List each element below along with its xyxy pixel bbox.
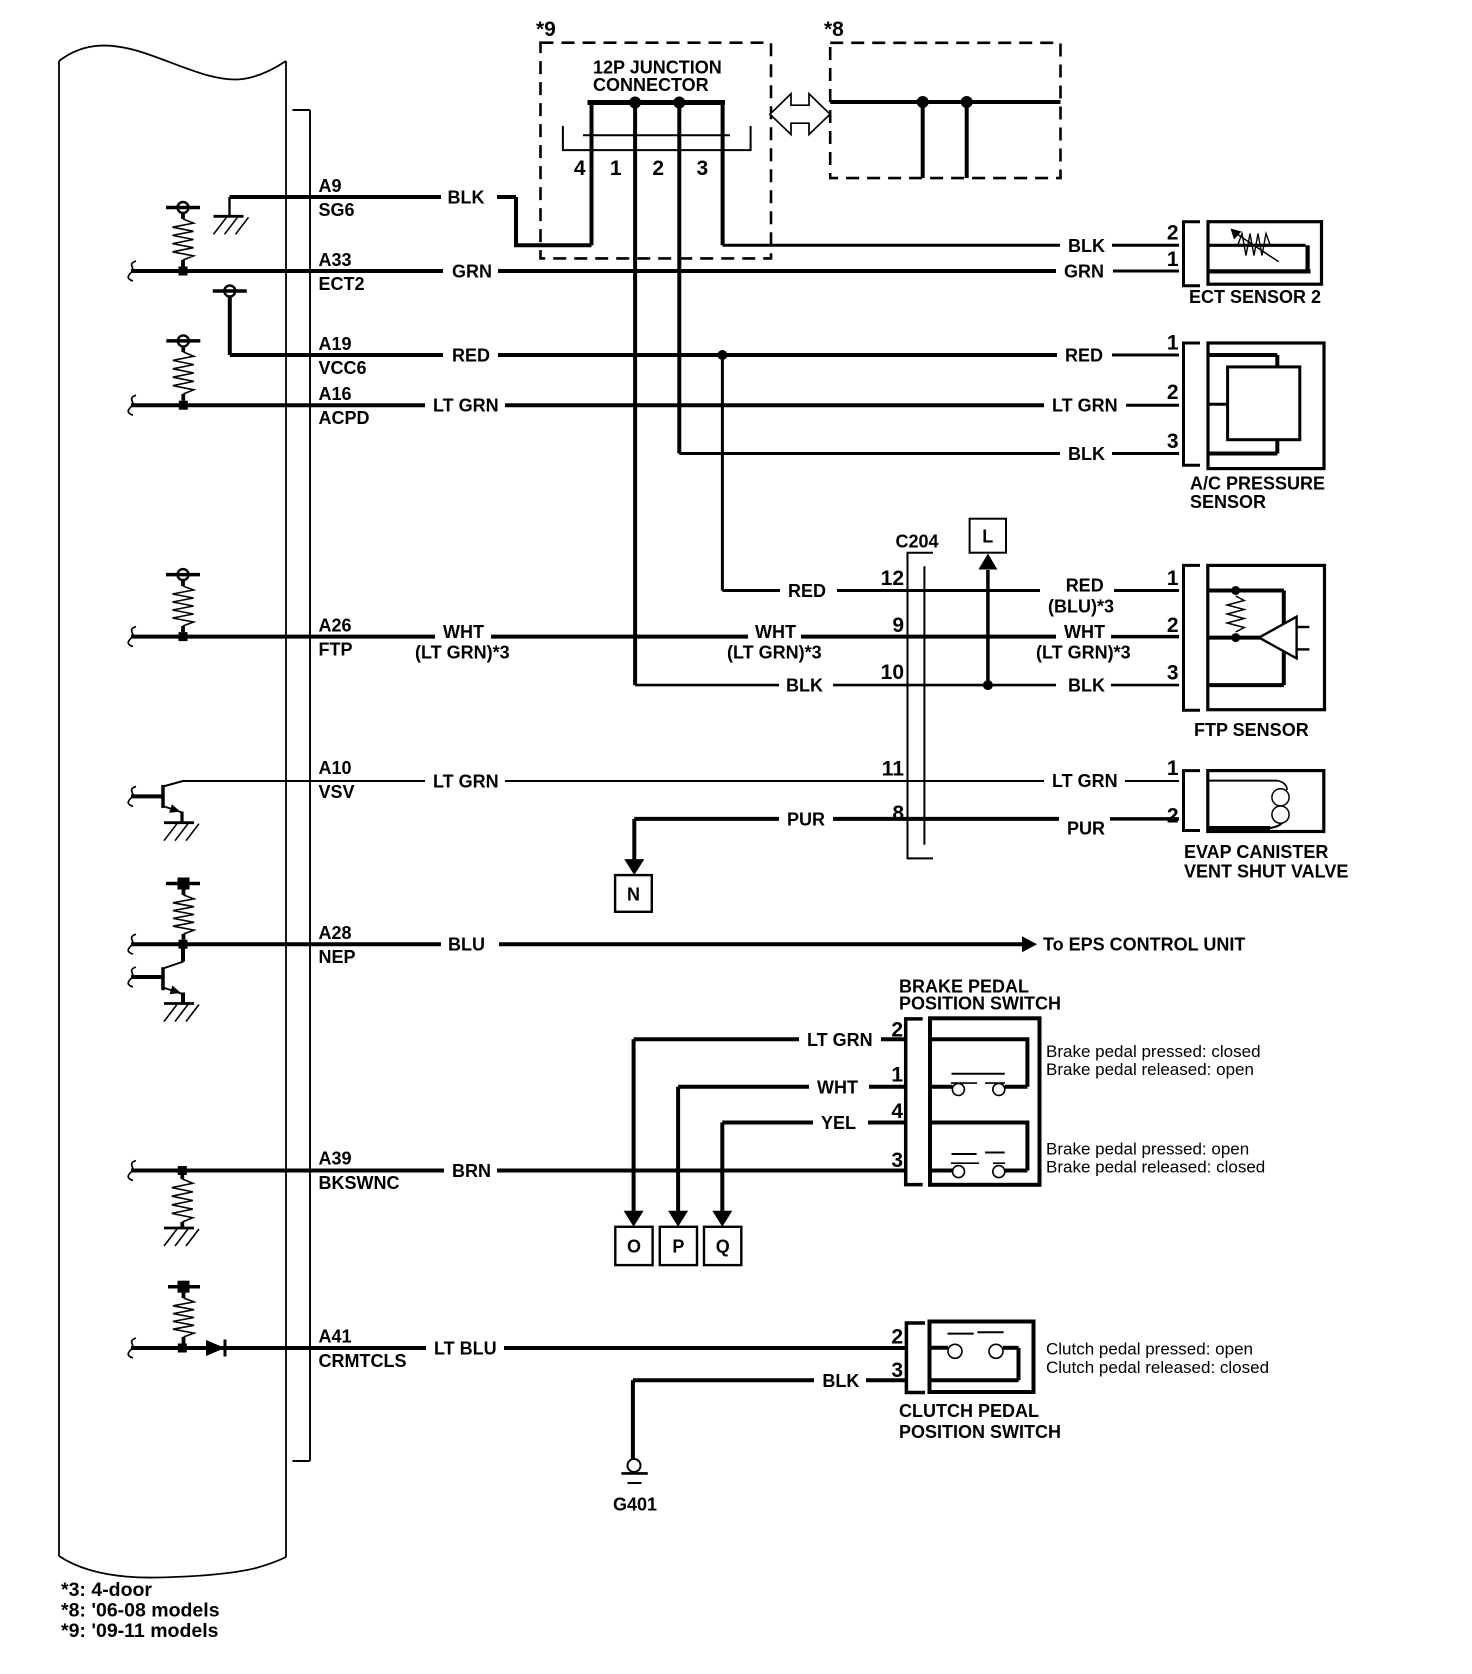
- svg-text:CLUTCH PEDAL: CLUTCH PEDAL: [899, 1401, 1039, 1421]
- svg-text:BLK: BLK: [1068, 676, 1105, 696]
- svg-text:4: 4: [891, 1100, 903, 1123]
- svg-text:SENSOR: SENSOR: [1190, 492, 1266, 512]
- svg-text:RED: RED: [788, 581, 826, 601]
- svg-text:WHT: WHT: [755, 622, 796, 642]
- svg-text:RED: RED: [1066, 576, 1104, 596]
- svg-text:SG6: SG6: [319, 200, 355, 220]
- svg-text:N: N: [627, 885, 640, 905]
- svg-text:BLK: BLK: [786, 676, 823, 696]
- svg-text:2: 2: [652, 157, 664, 180]
- svg-text:C204: C204: [896, 532, 939, 552]
- svg-text:1: 1: [891, 1064, 903, 1087]
- svg-text:To EPS CONTROL UNIT: To EPS CONTROL UNIT: [1043, 935, 1245, 955]
- svg-text:WHT: WHT: [443, 622, 484, 642]
- svg-text:A/C PRESSURE: A/C PRESSURE: [1190, 474, 1325, 494]
- svg-text:Brake pedal released: open: Brake pedal released: open: [1046, 1060, 1254, 1079]
- svg-text:RED: RED: [452, 346, 490, 366]
- svg-text:VENT SHUT VALVE: VENT SHUT VALVE: [1184, 862, 1348, 882]
- svg-text:A28: A28: [319, 923, 352, 943]
- svg-text:A26: A26: [319, 616, 352, 636]
- svg-text:NEP: NEP: [319, 947, 356, 967]
- svg-text:A19: A19: [319, 334, 352, 354]
- svg-text:PUR: PUR: [787, 809, 825, 829]
- svg-text:GRN: GRN: [452, 262, 492, 282]
- svg-text:YEL: YEL: [821, 1113, 856, 1133]
- svg-text:10: 10: [881, 661, 904, 684]
- svg-text:2: 2: [1167, 614, 1179, 637]
- svg-text:A41: A41: [319, 1327, 352, 1347]
- svg-text:12: 12: [881, 567, 904, 590]
- svg-text:LT GRN: LT GRN: [433, 772, 499, 792]
- svg-text:2: 2: [891, 1019, 903, 1042]
- svg-text:LT BLU: LT BLU: [434, 1339, 497, 1359]
- svg-text:LT GRN: LT GRN: [807, 1030, 873, 1050]
- svg-text:ECT2: ECT2: [319, 274, 365, 294]
- svg-text:FTP: FTP: [319, 640, 353, 660]
- svg-text:BKSWNC: BKSWNC: [319, 1173, 400, 1193]
- svg-text:(BLU)*3: (BLU)*3: [1048, 597, 1114, 617]
- svg-text:8: 8: [892, 802, 904, 825]
- svg-text:Brake pedal released: closed: Brake pedal released: closed: [1046, 1158, 1265, 1177]
- svg-text:LT GRN: LT GRN: [1052, 396, 1118, 416]
- svg-text:A10: A10: [319, 758, 352, 778]
- svg-text:*9: *9: [536, 18, 556, 41]
- svg-text:G401: G401: [613, 1495, 657, 1515]
- svg-text:1: 1: [1167, 248, 1179, 271]
- svg-text:1: 1: [610, 157, 622, 180]
- svg-text:2: 2: [1167, 805, 1179, 828]
- svg-text:FTP SENSOR: FTP SENSOR: [1194, 720, 1309, 740]
- svg-text:4: 4: [574, 157, 586, 180]
- svg-text:(LT GRN)*3: (LT GRN)*3: [415, 643, 510, 663]
- svg-text:Clutch pedal pressed: open: Clutch pedal pressed: open: [1046, 1340, 1253, 1359]
- svg-text:LT GRN: LT GRN: [433, 396, 499, 416]
- svg-text:WHT: WHT: [817, 1077, 858, 1097]
- svg-text:A39: A39: [319, 1149, 352, 1169]
- svg-text:VSV: VSV: [319, 782, 355, 802]
- svg-text:A9: A9: [319, 176, 342, 196]
- svg-text:CONNECTOR: CONNECTOR: [593, 75, 709, 95]
- svg-text:PUR: PUR: [1067, 818, 1105, 838]
- svg-text:O: O: [627, 1237, 641, 1257]
- svg-text:1: 1: [1167, 757, 1179, 780]
- svg-text:*9: '09-11 models: *9: '09-11 models: [61, 1620, 219, 1642]
- svg-text:ECT SENSOR 2: ECT SENSOR 2: [1189, 287, 1321, 307]
- svg-text:EVAP CANISTER: EVAP CANISTER: [1184, 842, 1328, 862]
- svg-text:Brake pedal pressed: closed: Brake pedal pressed: closed: [1046, 1042, 1261, 1061]
- svg-text:BLK: BLK: [1068, 444, 1105, 464]
- svg-text:ACPD: ACPD: [319, 408, 370, 428]
- svg-text:3: 3: [697, 157, 709, 180]
- svg-text:2: 2: [1167, 381, 1179, 404]
- svg-text:BLU: BLU: [448, 935, 485, 955]
- svg-text:POSITION SWITCH: POSITION SWITCH: [899, 1422, 1061, 1442]
- svg-text:BLK: BLK: [822, 1371, 859, 1391]
- svg-text:2: 2: [1167, 222, 1179, 245]
- svg-text:A33: A33: [319, 250, 352, 270]
- svg-text:RED: RED: [1065, 346, 1103, 366]
- svg-text:*8: '06-08 models: *8: '06-08 models: [61, 1600, 220, 1622]
- svg-text:CRMTCLS: CRMTCLS: [319, 1351, 407, 1371]
- svg-text:BLK: BLK: [1068, 236, 1105, 256]
- svg-text:3: 3: [891, 1149, 903, 1172]
- svg-text:*3: 4-door: *3: 4-door: [61, 1579, 152, 1601]
- svg-text:1: 1: [1167, 332, 1179, 355]
- svg-text:WHT: WHT: [1064, 622, 1105, 642]
- svg-text:(LT GRN)*3: (LT GRN)*3: [727, 643, 822, 663]
- svg-text:*8: *8: [824, 18, 844, 41]
- svg-text:3: 3: [1167, 430, 1179, 453]
- svg-text:GRN: GRN: [1064, 262, 1104, 282]
- svg-text:9: 9: [892, 614, 904, 637]
- svg-text:BRN: BRN: [452, 1161, 491, 1181]
- svg-text:Q: Q: [716, 1237, 730, 1257]
- svg-text:3: 3: [1167, 662, 1179, 685]
- svg-text:P: P: [672, 1237, 684, 1257]
- svg-text:Clutch pedal released: closed: Clutch pedal released: closed: [1046, 1358, 1269, 1377]
- svg-text:A16: A16: [319, 384, 352, 404]
- svg-text:L: L: [982, 527, 993, 547]
- svg-text:11: 11: [882, 758, 905, 781]
- svg-text:VCC6: VCC6: [319, 358, 367, 378]
- svg-text:LT GRN: LT GRN: [1052, 771, 1118, 791]
- svg-text:POSITION SWITCH: POSITION SWITCH: [899, 994, 1061, 1014]
- svg-text:(LT GRN)*3: (LT GRN)*3: [1036, 643, 1131, 663]
- svg-text:2: 2: [891, 1326, 903, 1349]
- svg-text:BLK: BLK: [448, 188, 485, 208]
- svg-text:1: 1: [1167, 567, 1179, 590]
- svg-text:Brake pedal pressed: open: Brake pedal pressed: open: [1046, 1140, 1249, 1159]
